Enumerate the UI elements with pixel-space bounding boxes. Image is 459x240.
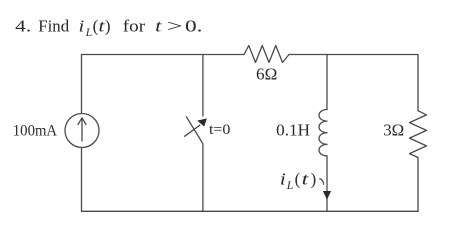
- svg-text:3Ω: 3Ω: [383, 121, 404, 140]
- wire top-left segment: [82, 54, 245, 56]
- wire switch top lead: [202, 55, 204, 117]
- wire right lower: [417, 158, 419, 212]
- current source 100mA circle: [65, 114, 99, 148]
- inductor 0.1H body: [319, 110, 327, 156]
- svg-text:t=0: t=0: [209, 122, 230, 138]
- switch motion arrow shaft: [185, 125, 200, 136]
- switch blade: [186, 117, 200, 140]
- current direction arrowhead iL: [323, 191, 331, 200]
- wire switch bottom lead: [200, 140, 203, 212]
- svg-text:100mA: 100mA: [13, 122, 58, 139]
- wire right upper: [417, 55, 419, 111]
- switch motion arrowhead: [197, 118, 207, 126]
- wire top-right segment: [289, 54, 418, 56]
- title: [15, 16, 202, 40]
- current direction tick near iL(t): [319, 179, 323, 185]
- current source arrow shaft: [81, 118, 83, 141]
- resistor 3Ω body: [410, 111, 427, 158]
- wire inductor top lead: [326, 55, 328, 110]
- resistor 6Ω body: [244, 46, 289, 63]
- wire left upper: [81, 55, 83, 114]
- current source arrowhead: [78, 118, 86, 125]
- wire left lower: [81, 148, 83, 212]
- wire bottom rail: [82, 210, 419, 212]
- svg-text:6Ω: 6Ω: [256, 64, 277, 83]
- wire inductor bottom lead: [326, 156, 328, 211]
- svg-text:0.1H: 0.1H: [276, 121, 310, 140]
